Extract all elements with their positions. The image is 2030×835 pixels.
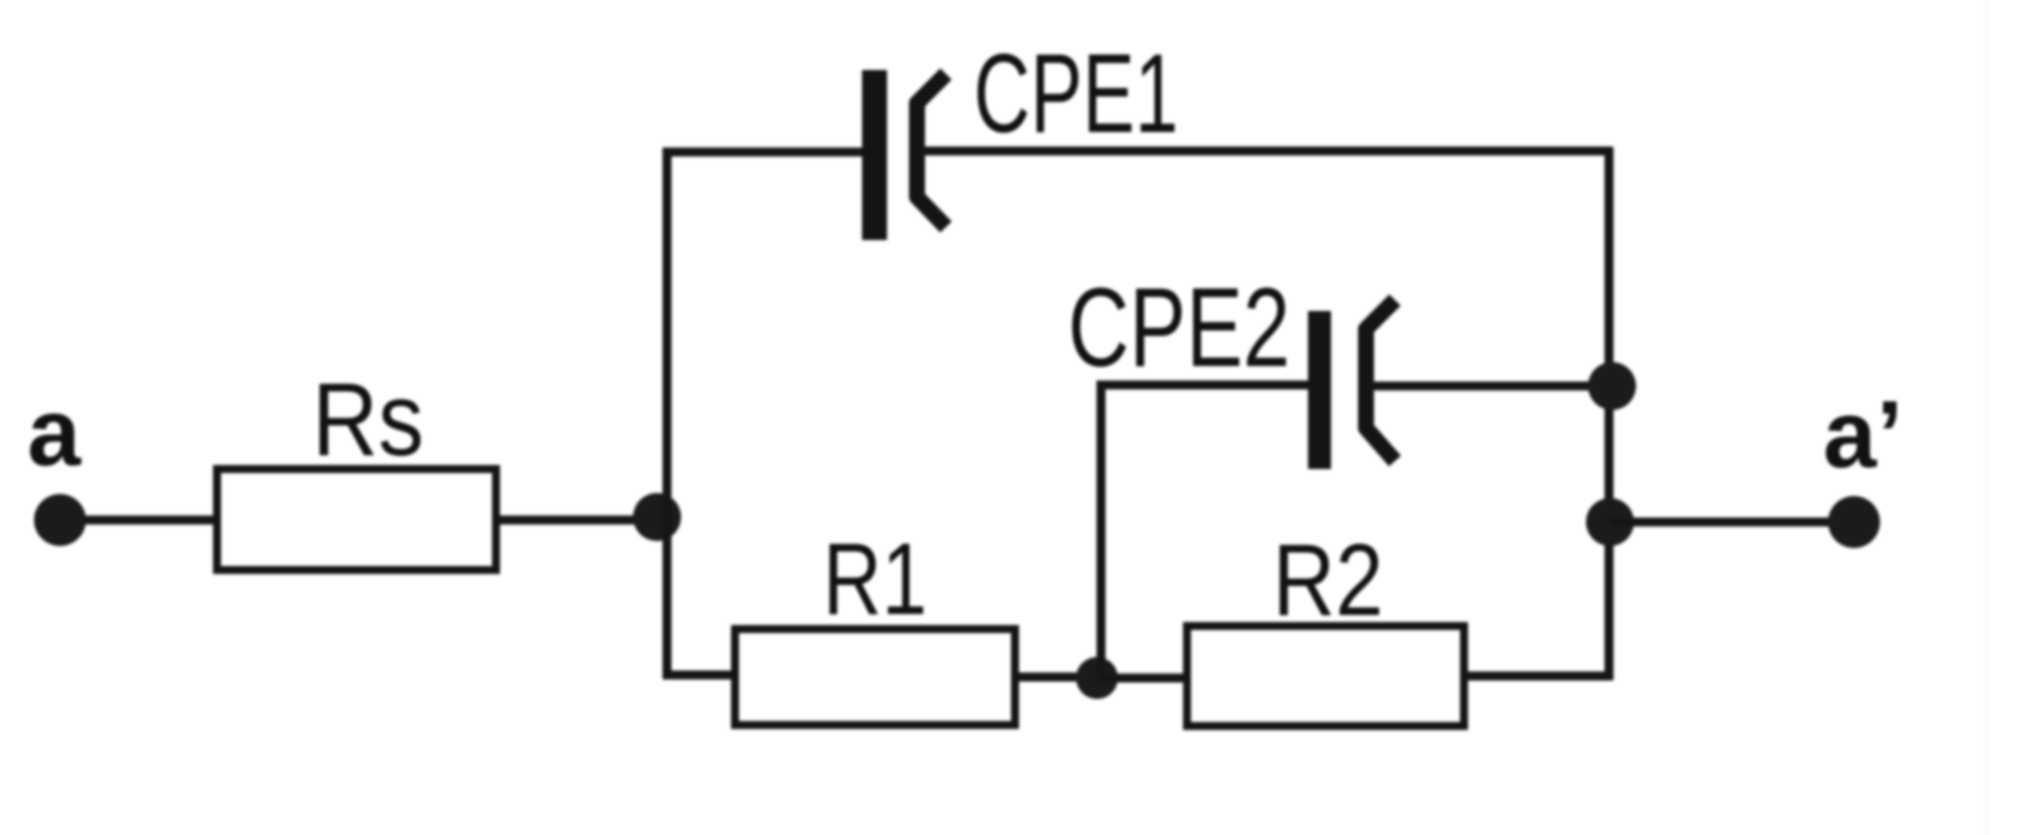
svg-text:CPE2: CPE2 bbox=[1068, 266, 1290, 391]
wire right vertical branch bbox=[1605, 147, 1614, 680]
svg-text:a: a bbox=[27, 379, 81, 486]
node A junction dot bbox=[633, 493, 681, 541]
wire Rs to node A bbox=[492, 516, 660, 525]
terminal dot a bbox=[34, 494, 86, 546]
capacitor CPE1 left plate bbox=[862, 70, 887, 240]
wire R1 to node B bbox=[1015, 673, 1079, 682]
wire a to Rs bbox=[82, 516, 221, 525]
node B junction dot bbox=[1076, 657, 1118, 699]
svg-text:a’: a’ bbox=[1823, 381, 1903, 488]
wire node D to terminal a' bbox=[1610, 518, 1852, 527]
svg-text:R2: R2 bbox=[1273, 523, 1384, 637]
resistor R1 bbox=[735, 629, 1015, 725]
node C junction dot bbox=[1588, 362, 1636, 410]
capacitor CPE2 left plate bbox=[1308, 311, 1331, 469]
node D junction dot bbox=[1586, 498, 1634, 546]
faint scan artifact line bbox=[1985, 0, 1988, 835]
svg-text:Rs: Rs bbox=[312, 361, 424, 478]
wire CPE1 to top-right corner bbox=[920, 147, 1612, 156]
resistor R2 bbox=[1187, 626, 1464, 726]
wire node B to R2 bbox=[1097, 674, 1191, 683]
capacitor CPE1 right plate bbox=[917, 74, 946, 227]
svg-text:R1: R1 bbox=[823, 521, 927, 636]
wire node B up to CPE2 bbox=[1101, 385, 1310, 678]
capacitor CPE2 right plate bbox=[1366, 300, 1395, 461]
resistor Rs bbox=[217, 469, 496, 570]
wire CPE2 to node C bbox=[1372, 382, 1610, 391]
wire R2 to bottom-right corner bbox=[1464, 672, 1613, 681]
terminal dot a' bbox=[1828, 496, 1880, 548]
wire bottom-left horizontal bbox=[663, 671, 739, 680]
wire left vertical branch bbox=[667, 152, 864, 679]
svg-text:CPE1: CPE1 bbox=[974, 31, 1179, 156]
